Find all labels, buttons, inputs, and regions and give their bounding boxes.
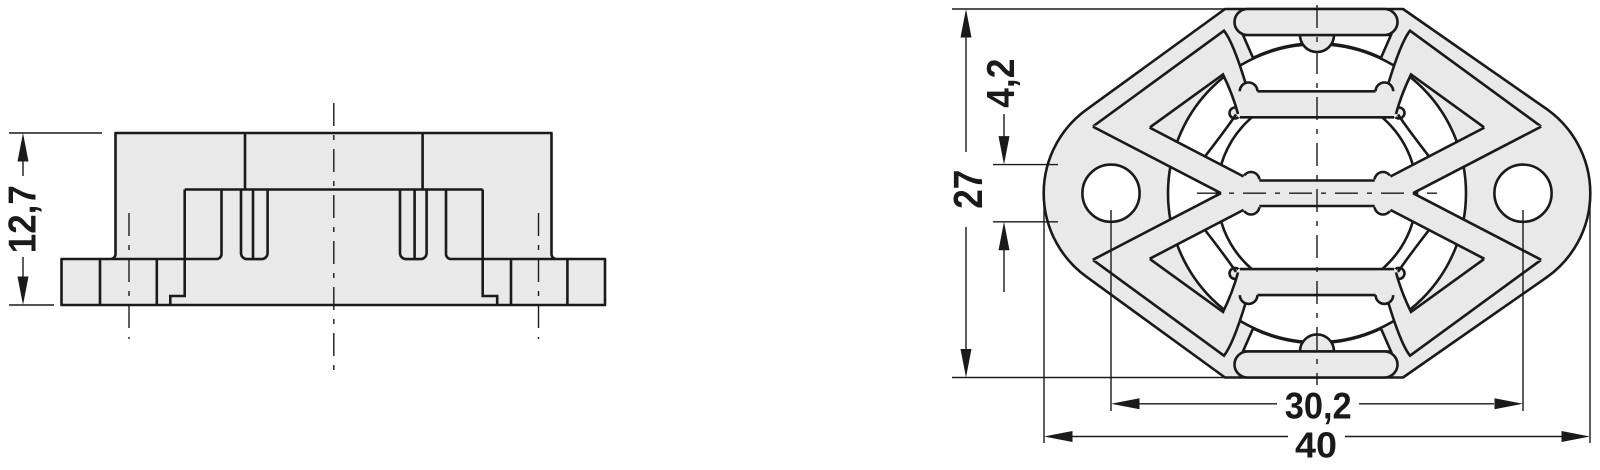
- svg-text:40: 40: [1295, 424, 1337, 465]
- top view: mounting hole left: [1082, 165, 1139, 222]
- top view: upper chevron left diagonal: [1150, 75, 1238, 128]
- top view: rim line lower-right: [1389, 260, 1542, 356]
- top view: lower chevron left diagonal: [1150, 259, 1238, 312]
- side view: vertical centerline: [333, 103, 335, 374]
- top view: upper chevron bottom edge: [1240, 116, 1394, 119]
- top view: rim line upper-left: [1093, 31, 1246, 127]
- dimension 30,2: extension line from left hole: [1110, 210, 1112, 411]
- dimension 27: bottom extension line: [952, 377, 1236, 379]
- top view: chevron knee bulges: [1240, 83, 1258, 92]
- dimension 12,7: bottom arrow: [18, 277, 29, 306]
- top view: white recess below top pad: [1243, 35, 1391, 58]
- top view: rib fork curves to notches: [1205, 115, 1236, 157]
- side view: hole centerline right: [538, 213, 540, 339]
- top view: inner circle (TO-3 can): [1217, 93, 1417, 293]
- side view: top face edge right: [421, 133, 424, 190]
- svg-text:30,2: 30,2: [1285, 385, 1352, 427]
- dimension 40: extension line left vertex: [1043, 200, 1045, 443]
- dimension 40: dimension line: [1072, 436, 1288, 438]
- side view: U slot right middle line: [413, 190, 416, 260]
- svg-text:12,7: 12,7: [1, 185, 44, 253]
- top view: bottom pad: [1235, 352, 1398, 378]
- dimension 4,2: top extension line: [993, 164, 1058, 166]
- side view: hole centerline left: [128, 213, 130, 339]
- dimension 12,7: bottom extension line: [9, 304, 54, 306]
- dimension 30,2: dimension line: [1139, 403, 1277, 405]
- top view: rib edges lower-right: [1413, 193, 1541, 260]
- top view: rim line lower-left: [1093, 260, 1246, 356]
- dimension 40: extension line right vertex: [1589, 200, 1591, 443]
- side view: inner profile top line: [185, 188, 483, 191]
- dimension 12,7: top arrow: [18, 133, 29, 162]
- side view: U slot left middle line: [252, 190, 255, 260]
- side view: pocket wall left with fillet: [112, 190, 222, 260]
- dimension 30,2: extension line from right hole: [1522, 210, 1524, 411]
- dimension 30,2: left arrow: [1111, 398, 1140, 409]
- top view: vertical centerline: [1316, 5, 1318, 385]
- top view: chevron notch nubs: [1230, 108, 1241, 119]
- top view: center rib bulge nubs: [1243, 172, 1260, 189]
- side view: flange joint line left: [156, 259, 159, 305]
- top view: center rib bottom edge: [1259, 205, 1374, 208]
- top view: rib edges lower-left: [1093, 193, 1221, 260]
- side view: flange joint line far-left: [99, 259, 102, 305]
- dimension 4,2: lower arrow pointing up: [999, 222, 1010, 251]
- top view: top pad: [1235, 9, 1398, 35]
- dimension 27: top arrow: [961, 9, 972, 38]
- svg-text:4,2: 4,2: [980, 59, 1023, 108]
- top view: bottom center bump: [1300, 334, 1334, 351]
- dimension 27: bottom arrow: [961, 349, 972, 378]
- top view: upper chevron top edge: [1257, 90, 1375, 93]
- dimension 12,7: top extension line: [9, 132, 102, 134]
- top view: lower chevron top edge: [1240, 268, 1394, 271]
- top view: top center bump: [1300, 35, 1334, 52]
- top view: lower chevron fill: [1093, 255, 1541, 355]
- top view: lower chevron right diagonal: [1396, 259, 1484, 312]
- dimension 40: left arrow: [1044, 431, 1073, 442]
- svg-text:27: 27: [945, 170, 991, 209]
- top view: cap outline: [1044, 9, 1591, 378]
- side view: pocket wall right with fillet: [446, 190, 555, 260]
- top view: horizontal centerline: [1197, 192, 1437, 194]
- dimension 12,7: dimension line segments: [22, 161, 24, 176]
- top view: diagonal rib fills: [1093, 127, 1244, 194]
- dimension 27: dimension line segments: [965, 37, 967, 152]
- dimension 4,2: bottom extension line: [993, 221, 1058, 223]
- top view: center rib top edge: [1259, 179, 1374, 182]
- top view: rib edges upper-right: [1413, 127, 1541, 194]
- side view: flange joint line far-right: [566, 259, 569, 305]
- top view: upper chevron right diagonal: [1396, 75, 1484, 128]
- top view: center rib fill: [1221, 181, 1413, 207]
- side view: flange joint line right: [510, 259, 513, 305]
- top view: rib edges upper-left: [1093, 127, 1221, 194]
- side view: part body silhouette: [62, 133, 606, 305]
- top view: apex merge patches: [1221, 177, 1251, 210]
- side view: inner wall left with step: [170, 190, 184, 306]
- top view: upper chevron fill: [1093, 31, 1541, 131]
- top view: white recess above bottom pad: [1243, 329, 1391, 352]
- dimension 30,2: right arrow: [1495, 398, 1524, 409]
- side view: inner wall right with step: [483, 190, 498, 306]
- side view: U slot left: [241, 190, 268, 260]
- top view: lower chevron bottom edge: [1257, 294, 1375, 297]
- dimension 4,2: upper arrow pointing down: [999, 136, 1010, 165]
- dimension 27: top extension line: [952, 8, 1236, 10]
- top view: rim line upper-right: [1389, 31, 1542, 127]
- side view: top face edge left: [244, 133, 247, 190]
- top view: outer circle of cap body: [1168, 44, 1466, 342]
- side view: U slot right: [400, 190, 427, 260]
- dimension 40: right arrow: [1562, 431, 1591, 442]
- top view: mounting hole right: [1494, 165, 1551, 222]
